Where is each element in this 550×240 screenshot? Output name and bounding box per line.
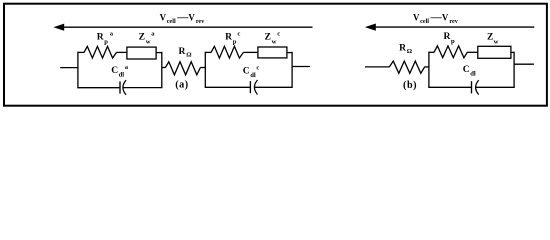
- svg-text:rev: rev: [449, 18, 458, 25]
- svg-text:—: —: [430, 12, 443, 24]
- svg-text:c: c: [256, 65, 259, 72]
- label Vcell-Vrev (b): [413, 12, 459, 25]
- wire Rohm to cathode block: [200, 67, 206, 69]
- resistor Rp (b): [434, 46, 467, 58]
- svg-text:C: C: [463, 64, 470, 75]
- wire bottom-left anode: [77, 87, 119, 89]
- label Rp^c: [225, 31, 240, 46]
- svg-text:Z: Z: [139, 31, 145, 42]
- label Cdl^a: [111, 64, 129, 79]
- node cathode block left rail: [204, 52, 206, 88]
- capacitor Cdl^c: [250, 80, 257, 95]
- svg-text:V: V: [160, 13, 167, 23]
- label Zw^a: [139, 31, 156, 46]
- resistor Rp^c: [211, 46, 243, 58]
- svg-text:w: w: [146, 38, 151, 45]
- label Zw^c: [265, 31, 281, 46]
- svg-text:C: C: [111, 65, 118, 76]
- warburg Zw box (b): [478, 46, 511, 58]
- svg-text:p: p: [233, 38, 237, 45]
- wire Zw^a to right rail: [156, 52, 162, 54]
- svg-text:V: V: [188, 13, 195, 23]
- label Cdl^c: [243, 65, 260, 80]
- capacitor Cdl^a: [120, 80, 126, 95]
- resistor Rohm (b): [389, 61, 424, 73]
- node anode block left rail: [77, 52, 79, 88]
- wire Zw^c to right rail: [287, 52, 293, 54]
- svg-text:Z: Z: [265, 31, 271, 42]
- wire Rohm to block (b): [424, 66, 429, 68]
- label Rp^a: [97, 31, 114, 46]
- label Rohm (a): [179, 46, 192, 59]
- resistor Rp^a: [84, 46, 117, 58]
- svg-text:C: C: [243, 65, 250, 76]
- wire output stub (a): [292, 66, 310, 68]
- wire input stub (a): [60, 67, 78, 69]
- wire bottom-left cathode: [205, 86, 250, 88]
- node cathode block right rail: [291, 52, 293, 88]
- capacitor Cdl (b): [472, 80, 479, 95]
- label Cdl (b): [463, 64, 476, 78]
- svg-text:V: V: [413, 13, 420, 23]
- node block (b) left rail: [428, 52, 430, 88]
- label Rp (b): [444, 31, 456, 45]
- label Vcell-Vrev (a): [160, 12, 206, 25]
- wire bottom-left (b): [428, 86, 471, 88]
- svg-text:Ω: Ω: [186, 52, 191, 59]
- svg-text:V: V: [442, 13, 449, 23]
- arrow Vcell-Vrev (b): [365, 24, 534, 31]
- wire Rp^a to Zw^a: [116, 51, 127, 53]
- wire Rp^c to Zw^c: [243, 51, 258, 53]
- svg-text:Ω: Ω: [407, 48, 412, 55]
- wire input stub (b): [365, 66, 390, 68]
- svg-text:rev: rev: [196, 18, 205, 25]
- svg-text:p: p: [104, 39, 108, 46]
- wire Zw to right rail (b): [511, 51, 515, 53]
- wire top-left stub cathode: [205, 51, 212, 53]
- wire top-left stub anode: [77, 51, 84, 53]
- label Rohm (b): [399, 42, 412, 55]
- svg-text:p: p: [451, 38, 455, 45]
- svg-text:dl: dl: [250, 72, 256, 79]
- svg-text:c: c: [277, 31, 280, 38]
- resistor Rohm (a): [165, 62, 200, 75]
- svg-text:w: w: [272, 38, 277, 45]
- wire capacitor Cdl^c to right rail: [255, 86, 293, 88]
- svg-text:(a): (a): [175, 80, 189, 91]
- wire top-left stub (b): [428, 51, 434, 53]
- label Zw (b): [487, 32, 499, 46]
- wire capacitor Cdl^a to right rail: [123, 87, 162, 89]
- svg-text:Z: Z: [487, 32, 493, 43]
- node block (b) right rail: [513, 52, 515, 88]
- svg-text:dl: dl: [119, 72, 125, 79]
- svg-text:cell: cell: [167, 18, 176, 25]
- wire Rp to Zw (b): [467, 51, 478, 53]
- svg-text:c: c: [237, 31, 240, 38]
- svg-text:dl: dl: [470, 71, 476, 78]
- warburg Zw^c box: [258, 47, 287, 58]
- arrow Vcell-Vrev (a): [53, 24, 312, 31]
- wire capacitor Cdl to right rail (b): [476, 86, 515, 88]
- wire output stub (b): [514, 63, 534, 65]
- wire anode block to Rohm: [162, 67, 166, 69]
- svg-text:w: w: [494, 39, 499, 46]
- svg-text:cell: cell: [420, 18, 429, 25]
- node anode block right rail: [161, 52, 163, 88]
- svg-text:(b): (b): [403, 80, 417, 91]
- warburg Zw^a box: [127, 47, 156, 59]
